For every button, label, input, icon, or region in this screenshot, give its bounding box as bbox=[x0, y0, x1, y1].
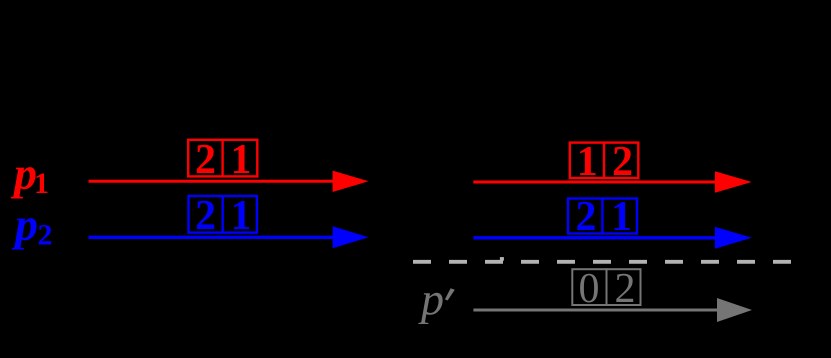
buffer box p' value 0|2 bbox=[572, 266, 640, 312]
buffer box p1 left value 2|1 bbox=[188, 137, 257, 183]
wire arrow p1 left bbox=[89, 171, 369, 192]
label p' bbox=[418, 274, 455, 325]
label p1 bbox=[10, 148, 49, 200]
svg-text:1: 1 bbox=[611, 194, 632, 240]
wire arrow p2 right bbox=[473, 227, 751, 249]
wire arrow p1 right bbox=[473, 171, 751, 193]
buffer box p2 left value 2|1 bbox=[189, 193, 257, 239]
dashed separator line bbox=[413, 260, 792, 264]
svg-text:2: 2 bbox=[195, 193, 216, 239]
svg-text:p: p bbox=[11, 199, 38, 250]
svg-text:1: 1 bbox=[231, 137, 252, 183]
svg-text:2: 2 bbox=[195, 137, 216, 183]
wire arrow p2 left bbox=[89, 226, 369, 248]
svg-text:2: 2 bbox=[38, 219, 53, 252]
svg-text:1: 1 bbox=[577, 139, 598, 185]
svg-text:p: p bbox=[418, 274, 444, 325]
svg-text:1: 1 bbox=[34, 167, 49, 200]
svg-text:p: p bbox=[10, 148, 37, 199]
buffer box p1 right value 1|2 bbox=[570, 139, 639, 185]
svg-text:2: 2 bbox=[612, 139, 633, 185]
label p2 bbox=[11, 199, 53, 252]
dash notch artifact bbox=[500, 257, 504, 261]
svg-text:2: 2 bbox=[576, 194, 597, 240]
svg-text:0: 0 bbox=[579, 266, 600, 312]
svg-text:2: 2 bbox=[615, 266, 636, 312]
buffer box p2 right value 2|1 bbox=[568, 194, 637, 240]
svg-text:1: 1 bbox=[231, 193, 252, 239]
wire arrow p' bbox=[473, 298, 752, 322]
